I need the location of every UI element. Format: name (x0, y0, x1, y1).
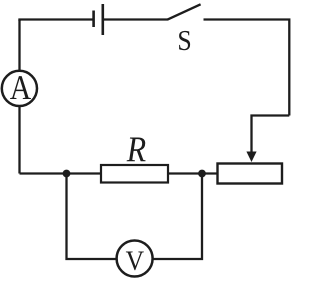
wire voltmeter branch left (node to V) (67, 174, 117, 260)
resistor R (101, 165, 168, 183)
battery positive (long) plate (102, 4, 105, 35)
wire bottom-left horizontal (to resistor R) (20, 172, 102, 174)
wire step to wiper (252, 116, 290, 154)
voltmeter V (117, 241, 153, 277)
wire top-left segment (corner to battery) (20, 20, 94, 22)
rheostat wiper arrowhead (246, 152, 256, 163)
battery negative (short) plate (92, 11, 95, 28)
wire switch to top-right corner, down right side (204, 20, 290, 116)
wire battery to switch (104, 18, 168, 20)
wire left vertical upper (corner to ammeter) (18, 20, 20, 72)
label R (resistor) (127, 137, 146, 161)
node a (junction dot left) (63, 170, 71, 178)
wire resistor R to rheostat (168, 172, 218, 174)
rheostat R2 (sliding rheostat body) (218, 164, 283, 184)
wire left vertical lower (ammeter to bottom wire) (18, 106, 20, 174)
ammeter A (2, 71, 37, 106)
wire voltmeter branch right (V to node) (153, 174, 202, 260)
node b (junction dot right) (198, 170, 206, 178)
battery B1 (94, 4, 103, 35)
label S (switch) (179, 31, 190, 50)
switch S (open blade) (167, 4, 200, 19)
